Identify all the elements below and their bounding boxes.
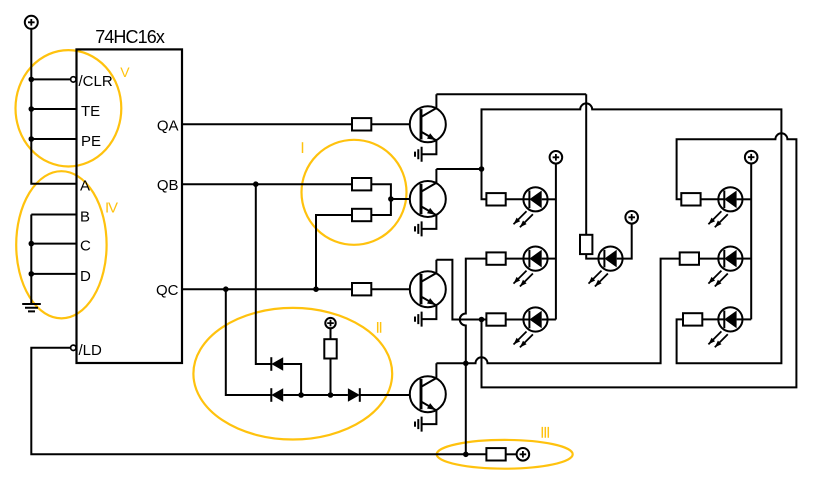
wire right LED +V line <box>750 164 752 320</box>
svg-text:/CLR: /CLR <box>79 73 113 90</box>
wire LED D5 to +V line <box>542 258 556 260</box>
resistor R4 <box>352 283 371 295</box>
junction Q2 base node <box>388 196 394 202</box>
wire pin TE <box>31 108 76 110</box>
wire node Q4c up to left LED row2 (hop over C1 row) <box>460 259 487 364</box>
label II <box>378 322 381 333</box>
svg-text:D: D <box>80 268 91 285</box>
wire R3 to QC line <box>316 215 352 289</box>
junction node LD <box>463 452 469 458</box>
annotation ellipse III <box>437 440 573 469</box>
svg-text:/LD: /LD <box>79 342 103 359</box>
wire QC to R4 <box>182 288 352 290</box>
inversion bubble /LD <box>71 345 76 350</box>
wire R3 to Q2 base node <box>371 199 391 215</box>
svg-text:A: A <box>80 178 90 195</box>
wire mid column down <box>585 94 587 235</box>
diode D3 <box>348 388 360 402</box>
power symbol P1 +V <box>25 16 38 29</box>
junction +V/PE <box>29 136 35 142</box>
ground G1 <box>22 304 41 311</box>
svg-text:PE: PE <box>81 133 101 150</box>
wire R2 to Q2 base node <box>371 184 391 199</box>
resistor R3 <box>352 209 371 221</box>
LED D5 <box>514 247 548 287</box>
inversion bubble /CLR <box>71 77 76 82</box>
wire pin D <box>31 273 76 275</box>
wire node B1 to R6 <box>482 169 487 199</box>
junction C/gnd rail <box>29 241 35 247</box>
rail 3 (QC net) <box>482 133 797 387</box>
LED D8 <box>708 187 742 227</box>
transistor Q4 (/LD driver) emitter ground <box>415 417 422 432</box>
wire LED D7 to +V <box>617 224 632 259</box>
resistor R13 (III pull-up) <box>486 448 505 460</box>
resistor R8 <box>486 313 505 325</box>
junction pull-up node <box>328 392 334 398</box>
transistor Q1 (QA driver) emitter ground <box>415 147 422 162</box>
power symbol P5 <box>325 318 335 328</box>
junction +V//CLR <box>29 77 35 83</box>
wire pin B <box>31 214 76 216</box>
annotation ellipse II <box>193 308 392 440</box>
wire +V rail to pin A <box>31 29 76 184</box>
junction +V/TE <box>29 106 35 112</box>
wire pin C <box>31 243 76 245</box>
junction D1/D2 common <box>298 392 304 398</box>
annotation circle I <box>302 140 407 245</box>
wire R1 to Q1 base <box>371 123 421 125</box>
transistor Q4 (/LD driver) <box>410 363 446 424</box>
wire node Q4c right to right LED row2 (hop over QC net) <box>466 259 680 364</box>
junction node C1 <box>479 317 485 323</box>
annotation ellipse V <box>16 50 122 166</box>
wire pin PE <box>31 138 76 140</box>
svg-text:QB: QB <box>157 177 179 194</box>
resistor R1 <box>352 118 371 130</box>
wire R8 to LED D6 <box>506 319 530 321</box>
wire pin /LD to node LD <box>31 348 486 455</box>
wire pin /CLR <box>31 78 70 80</box>
power symbol P6 <box>517 448 530 461</box>
wire BCD ground rail <box>30 215 32 305</box>
resistor R12 <box>683 313 702 325</box>
annotation ellipse IV <box>16 171 106 318</box>
transistor Q1 (QA driver) <box>410 94 446 154</box>
junction QC/R3 branch <box>313 286 319 292</box>
rail 2 (QB net) <box>482 103 782 363</box>
wire diode common node <box>283 394 348 396</box>
LED D10 <box>708 307 742 347</box>
wire pull-up to R5 <box>330 359 332 396</box>
wire QB to R2 <box>182 183 352 185</box>
wire QA to R1 <box>182 123 352 125</box>
LED D9 <box>708 247 742 287</box>
wire R13 to P6 <box>506 453 517 455</box>
wire D3 to Q4 base <box>360 394 421 396</box>
LED D7 <box>589 247 623 287</box>
junction QC/diode branch <box>223 286 229 292</box>
label III <box>542 427 548 438</box>
svg-text:QC: QC <box>156 282 179 299</box>
wire LED D4 to +V line <box>542 198 556 200</box>
power symbol P2 <box>550 151 563 164</box>
transistor Q2 (QB driver) <box>410 169 446 229</box>
junction node B1 <box>479 166 485 172</box>
wire D1 anode to common <box>283 364 301 395</box>
wire LED D10 to +V line <box>737 318 752 320</box>
wire QC branch to D2 <box>226 289 271 395</box>
junction QB/diode branch <box>253 181 259 187</box>
rail QA collector <box>436 93 586 95</box>
resistor R10 <box>681 193 700 205</box>
wire R5 to P5 <box>330 328 332 339</box>
wire R12 to LED D10 <box>702 318 724 320</box>
wire Q3 collector to node C1 <box>436 260 486 320</box>
resistor R9 (mid LED) <box>580 235 592 254</box>
wire R7 to LED D5 <box>506 258 530 260</box>
svg-text:QA: QA <box>157 117 179 134</box>
svg-text:74HC16x: 74HC16x <box>95 27 165 47</box>
svg-text:C: C <box>80 238 91 255</box>
IC U1 74HC16x body <box>77 49 183 363</box>
wire R4 to Q3 base <box>371 288 421 290</box>
resistor R5 (AND pull-up) <box>324 339 336 358</box>
wire Q2 collector to node B1 <box>436 168 481 170</box>
resistor R2 <box>352 178 371 190</box>
transistor Q3 (QC driver) emitter ground <box>415 312 422 327</box>
junction node Q4c <box>463 361 469 367</box>
LED D4 <box>514 187 548 227</box>
resistor R6 <box>486 193 505 205</box>
wire R11 to LED D9 <box>699 258 724 260</box>
power symbol P4 <box>745 151 758 164</box>
wire QB branch to D1 <box>256 184 271 364</box>
svg-text:V: V <box>120 64 130 80</box>
transistor Q2 (QB driver) emitter ground <box>415 221 422 236</box>
svg-text:TE: TE <box>81 103 100 120</box>
wire LED D9 to +V line <box>737 258 752 260</box>
svg-text:IV: IV <box>105 200 118 217</box>
transistor Q3 (QC driver) <box>410 260 446 319</box>
wire left LED +V line <box>555 164 557 320</box>
wire node Q4c down to node LD <box>465 363 467 454</box>
wire base node to Q2 <box>391 198 421 200</box>
wire LED D8 to +V line <box>737 198 752 200</box>
wire R6 to LED D4 <box>506 198 530 200</box>
junction D/gnd rail <box>29 271 35 277</box>
diode D2 <box>271 388 283 402</box>
diode D1 <box>271 357 283 371</box>
resistor R7 <box>486 252 505 264</box>
wire R10 to LED D8 <box>701 198 725 200</box>
wire R9 to LED D7 <box>586 254 604 259</box>
power symbol P3 <box>625 211 638 224</box>
resistor R11 <box>680 252 699 264</box>
svg-text:B: B <box>80 209 90 226</box>
label I <box>302 142 304 153</box>
wire Q4 collector to node D2 <box>436 362 465 364</box>
wire LED D6 to +V line <box>542 319 556 321</box>
LED D6 <box>514 307 548 347</box>
